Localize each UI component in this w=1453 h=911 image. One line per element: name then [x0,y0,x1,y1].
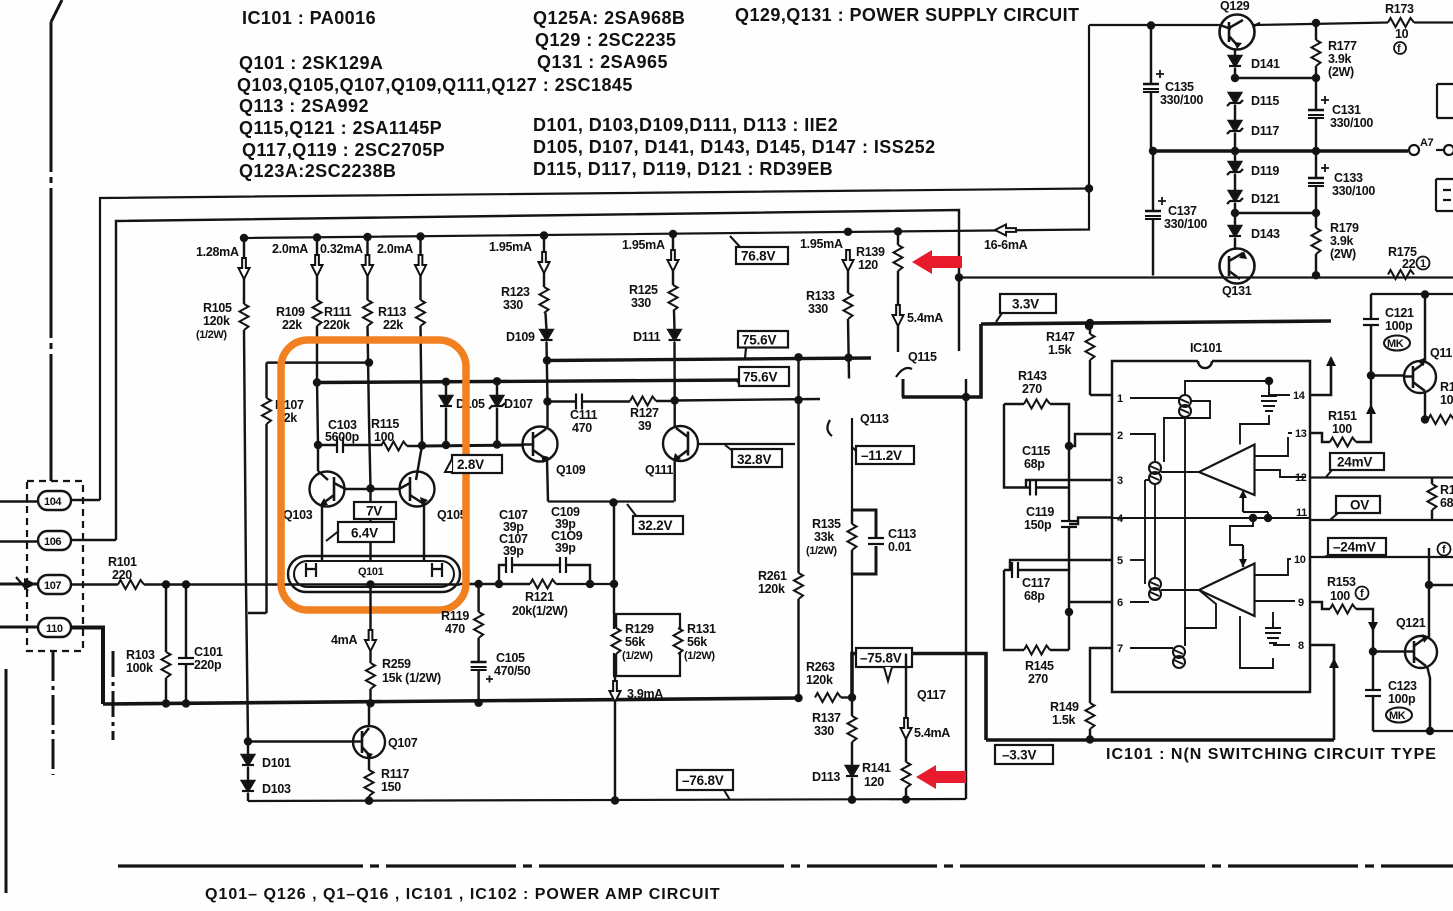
svg-text:100: 100 [1330,589,1350,603]
dual FET Q101 inner outline [294,561,454,587]
transistor Q119 [1404,295,1452,394]
red arrow at R139 [912,250,962,274]
callout -3.3V [995,745,1053,764]
svg-text:330/100: 330/100 [1164,217,1207,231]
resistor R107 22k [262,363,304,613]
pin 5 lead [1010,560,1112,570]
transistor Q131 [1220,249,1255,299]
75.6V bus (first) [547,358,871,361]
svg-text:R115: R115 [371,417,399,431]
capacitor C137 330/100 [1145,151,1207,276]
svg-text:220k: 220k [323,318,350,332]
svg-text:150p: 150p [1024,518,1052,532]
svg-text:Q101: Q101 [358,566,384,578]
Q109 emitter wire [547,459,548,502]
IC internal: mirror pair 3 [1149,578,1161,600]
svg-text:Q113: Q113 [860,412,889,426]
resistor R103 100k [126,585,171,705]
terminal A7 [1409,137,1453,155]
input line through Q101 [300,583,460,586]
svg-text:100: 100 [1332,422,1352,436]
C117/R145 network box [1004,570,1069,650]
svg-text:R145: R145 [1025,659,1054,673]
svg-text:Q107: Q107 [388,736,418,750]
svg-text:Q11: Q11 [1430,346,1452,360]
hollow current arrows overlay [239,225,1017,740]
chassis dash-dot line top-left [51,0,113,775]
pin numbers [1117,390,1307,655]
svg-text:Q111: Q111 [645,463,673,477]
pin 8 lead to -3.3V rail with arrow [1310,645,1339,740]
diode D141 [1229,49,1280,76]
svg-text:D109: D109 [506,330,535,344]
svg-text:6: 6 [1117,597,1123,609]
top supply rail 76.8V [244,25,1089,238]
svg-text:C133: C133 [1334,171,1363,185]
bottom bus wire (ground/feedback bus) [103,698,801,704]
capacitors C107/C109 bridge [499,505,590,584]
svg-text:470/50: 470/50 [494,664,531,678]
svg-text:0.32mA: 0.32mA [320,242,363,256]
svg-text:R153: R153 [1327,575,1356,589]
zener D121 [1227,191,1280,213]
svg-text:R117: R117 [381,767,409,781]
pin 12 output line [1310,476,1453,478]
svg-text:20k(1/2W): 20k(1/2W) [512,604,568,618]
callout 0V [1330,496,1380,520]
svg-text:39: 39 [638,419,652,433]
svg-text:10: 10 [1294,554,1306,566]
resistor R109 22k [276,238,322,383]
svg-text:110: 110 [46,623,63,635]
current arrow 2.0mA [272,242,323,276]
svg-text:R1: R1 [1440,380,1453,394]
Q119 collector wire from top [1371,293,1453,295]
svg-text:1.28mA: 1.28mA [196,245,239,259]
svg-text:2.0mA: 2.0mA [272,242,308,256]
svg-text:–11.2V: –11.2V [861,448,902,463]
svg-text:IC101: IC101 [1190,341,1222,355]
capacitor C117 68p [1012,562,1050,603]
svg-text:1: 1 [1420,258,1426,270]
svg-text:22k: 22k [383,318,403,332]
svg-text:100: 100 [374,430,394,444]
svg-text:270: 270 [1022,382,1042,396]
svg-text:5.4mA: 5.4mA [914,726,950,740]
svg-text:1.5k: 1.5k [1048,343,1071,357]
svg-text:Q103,Q105,Q107,Q109,Q111,Q127: Q103,Q105,Q107,Q109,Q111,Q127 : 2SC1845 [237,75,633,95]
svg-text:R113: R113 [378,305,406,319]
svg-text:R103: R103 [126,648,155,662]
IC internal: input mirror pair top [1179,395,1191,417]
IC internal: op-amp triangle 2 [1199,545,1255,616]
current arrow 5.4mA (second) [901,654,951,741]
resistor R173 10 [1385,2,1453,55]
red arrow at R141 [916,765,966,789]
svg-text:2.8V: 2.8V [457,457,484,472]
svg-text:(2W): (2W) [1330,247,1356,261]
svg-text:C119: C119 [1026,505,1054,519]
transistor Q111 [645,401,795,478]
svg-text:33k: 33k [814,530,834,544]
svg-text:MK: MK [1389,710,1406,722]
svg-text:330/100: 330/100 [1160,93,1203,107]
svg-text:R1: R1 [1440,483,1453,497]
callout 76.8V [730,236,788,264]
svg-text:220: 220 [112,568,132,582]
bottom negative rail -76.8V [248,799,966,801]
pin 3 lead [1026,480,1112,488]
svg-text:106: 106 [44,536,61,548]
junction dots input line [163,582,169,588]
resistor R141 120 [862,739,911,800]
svg-text:Q117,Q119 : 2SC2705P: Q117,Q119 : 2SC2705P [242,140,445,160]
svg-text:R109: R109 [276,305,305,319]
svg-text:68p: 68p [1024,457,1045,471]
Q101 inner gate bars [306,563,442,577]
callout 24mV [1326,453,1384,477]
pin 13 lead + resistor R151 100 [1310,409,1357,447]
svg-text:330: 330 [814,724,834,738]
IC internal: wiring [1112,381,1310,668]
svg-text:330: 330 [808,302,828,316]
svg-text:56k: 56k [625,635,645,649]
svg-text:220p: 220p [194,658,222,672]
svg-text:C101: C101 [194,645,223,659]
svg-text:10: 10 [1440,393,1453,407]
pin 10 output line [1310,556,1453,558]
svg-text:–3.3V: –3.3V [1002,748,1036,763]
svg-text:D103: D103 [262,782,291,796]
svg-text:Q113 : 2SA992: Q113 : 2SA992 [239,96,369,116]
wire 106-loop vertical continues down to Q115 region [958,278,960,352]
resistor R179 3.9k 2W [1312,213,1360,275]
transistor Q115 (erased, label + fragment) [896,350,937,377]
svg-text:120k: 120k [806,673,833,687]
C111/R127 wire (Q109-Q111 collector link) [548,400,577,402]
current arrow 0.32mA [320,242,373,276]
svg-text:D121: D121 [1251,192,1280,206]
svg-text:15k (1/2W): 15k (1/2W) [382,671,441,685]
capacitor C111 470 [570,394,630,436]
svg-text:120: 120 [858,258,878,272]
callout 75.6V (first) [738,331,788,358]
svg-text:R151: R151 [1328,409,1357,423]
6.4V callout [326,522,394,542]
svg-text:0.01: 0.01 [888,540,911,554]
Q119 base wire [1371,374,1405,376]
svg-text:C115: C115 [1022,444,1050,458]
callout 32.8V (at Q111 base) [725,445,782,467]
chassis dash-dot bottom horizontal [118,864,1453,867]
svg-text:Q129,Q131 : POWER SUPPLY CIRCU: Q129,Q131 : POWER SUPPLY CIRCUIT [735,5,1080,25]
thick wire bus corner up to -75.8V line [852,654,986,741]
emitter link line [548,500,674,502]
chassis solid line bottom-left [5,669,8,893]
-3.3V thick rail [986,738,1334,742]
svg-text:1: 1 [1117,393,1123,405]
resistor R119 470 [441,584,483,662]
junction 106 rail [956,275,962,281]
right edge connector box 2 [1436,179,1453,211]
svg-text:–75.8V: –75.8V [860,651,902,666]
svg-text:R139: R139 [856,245,885,259]
svg-text:MK: MK [1387,338,1404,350]
wire R101 to Q101 input line [144,583,300,586]
svg-text:Q101 : 2SK129A: Q101 : 2SK129A [239,53,383,73]
resistor R149 1.5k [1050,700,1095,740]
wire R107 top link [267,361,370,363]
svg-text:–24mV: –24mV [1333,540,1376,555]
svg-text:22k: 22k [282,318,302,332]
svg-text:Q125A: 2SA968B: Q125A: 2SA968B [533,8,685,28]
svg-text:150: 150 [381,780,401,794]
connector 106 [0,531,116,550]
diode D103 [242,767,291,801]
pin 2 lead [1069,434,1112,446]
svg-text:12: 12 [1295,472,1307,484]
svg-text:3: 3 [1117,475,1123,487]
svg-text:120k: 120k [758,582,785,596]
svg-text:68: 68 [1440,496,1453,510]
svg-text:330: 330 [631,296,651,310]
svg-text:R261: R261 [758,569,787,583]
svg-text:14: 14 [1293,390,1306,402]
svg-text:6.4V: 6.4V [351,526,378,541]
svg-text:22: 22 [1402,257,1416,271]
pin 11 output line (0V) [1310,519,1453,521]
Q101 center tap junction [368,582,374,588]
IC internal: mirror pair bottom [1173,646,1185,668]
svg-text:C113: C113 [888,527,916,541]
svg-text:D115, D117, D119, D121 : RD39E: D115, D117, D119, D121 : RD39EB [533,159,833,179]
svg-text:Q103: Q103 [283,508,313,522]
wire R107 bottom jog to diode chain [248,612,267,614]
svg-text:75.6V: 75.6V [743,370,777,385]
svg-text:Q123A:2SC2238B: Q123A:2SC2238B [239,161,396,181]
svg-text:D115: D115 [1251,94,1279,108]
svg-text:R141: R141 [862,761,891,775]
transistor Q105 [399,446,467,523]
svg-text:3.9k: 3.9k [1328,52,1351,66]
current arrow 4mA [331,585,376,652]
svg-text:C137: C137 [1168,204,1197,218]
IC internal: mirror pair 2 [1149,462,1161,484]
svg-text:R119: R119 [441,609,469,623]
resistor R123 330 [501,236,549,330]
IC internal cap top (pin14) [1261,392,1277,411]
svg-text:R179: R179 [1330,221,1359,235]
svg-text:Q129: Q129 [1220,0,1250,13]
callout 32.2V [627,504,683,534]
svg-text:100p: 100p [1385,319,1413,333]
PSU mid rail with A7 terminal [1153,149,1408,153]
current arrow 1.95mA (2nd) [622,238,679,271]
emitter wire Q103 to Q101 [321,504,323,560]
callout -75.8V [856,648,912,681]
svg-text:A7: A7 [1420,137,1434,149]
pin 1 lead [1090,394,1112,396]
dashed connector box [27,481,83,651]
Q121 emitter wire to bottom line [1427,666,1430,731]
Q121 collector wire [1428,548,1430,637]
connector 107 [38,575,71,594]
svg-text:1.5k: 1.5k [1052,713,1075,727]
rail junction dots [241,235,247,241]
svg-text:R125: R125 [629,283,658,297]
callout -76.8V [677,770,733,800]
svg-text:(1/2W): (1/2W) [684,650,715,662]
Q121 base wire [1373,650,1406,652]
svg-text:R133: R133 [806,289,835,303]
svg-text:R143: R143 [1018,369,1047,383]
svg-text:13: 13 [1295,428,1307,440]
svg-text:R111: R111 [324,305,352,319]
svg-text:D105: D105 [456,397,485,411]
IC internal: op-amp triangle 1 [1199,445,1255,513]
Q115 output bus (thick) [902,324,981,397]
svg-text:C123: C123 [1388,679,1417,693]
diode D113 [812,766,858,800]
16.6mA hollow arrow pointing left [984,225,1028,253]
svg-text:(1/2W): (1/2W) [196,329,227,341]
svg-text:D119: D119 [1251,164,1279,178]
7V callout [354,502,396,519]
svg-text:39p: 39p [503,544,524,558]
resistor R139 120 [856,232,903,306]
wire loop from terminal 106 (second frame wire) [116,210,959,540]
diode D105 [440,382,485,445]
svg-text:R177: R177 [1328,39,1357,53]
wire collector link continues right to Q113 area [675,399,820,401]
svg-text:D117: D117 [1251,124,1279,138]
wire down from Q115 bus to driver column [965,379,967,799]
svg-text:330/100: 330/100 [1330,116,1373,130]
resistor R145 270 [1024,646,1054,687]
resistor R259 15k (1/2W) [366,651,441,703]
75.6V bus (second bus, full width) [317,380,745,383]
resistor R147 1.5k [1046,323,1095,395]
svg-text:(1/2W): (1/2W) [622,650,653,662]
zener D115 [1227,93,1279,121]
svg-text:R105: R105 [203,301,232,315]
callout 2.8V (at R115 node) [445,455,502,473]
IC internal cap bottom (pin8) [1265,622,1281,643]
resistor R133 330 [806,271,853,379]
pin 4 lead [1069,518,1112,525]
svg-text:68p: 68p [1024,589,1045,603]
pin 7 lead [1090,648,1112,703]
capacitor C131 330/100 [1308,78,1373,151]
R135/C113 parallel box [852,510,876,574]
svg-text:100p: 100p [1388,692,1416,706]
svg-text:16-6mA: 16-6mA [984,238,1028,252]
svg-text:120k: 120k [203,314,230,328]
resistor R135 33k (1/2W) [806,510,857,574]
wire R151 to Q119 base [1356,376,1376,443]
svg-text:Q115: Q115 [908,350,937,364]
capacitor C105 470/50 electrolytic [471,651,531,703]
connector 110 [0,618,71,637]
emitter wire Q105 to Q101 [423,504,425,560]
Q119 emitter resistor (clipped at edge) [1422,380,1453,424]
svg-text:(1/2W): (1/2W) [806,545,837,557]
resistor R113 22k [378,238,425,445]
callout -11.2V [852,446,914,464]
base wire Q103-Q105 [346,488,400,490]
wire Q101 right side to R119/R121 [460,583,530,585]
svg-text:330: 330 [503,298,523,312]
PSU top rail [1089,24,1220,26]
svg-text:OV: OV [1350,498,1369,513]
svg-text:76.8V: 76.8V [741,249,775,264]
svg-text:R263: R263 [806,660,835,674]
diode D109 [506,330,553,401]
svg-text:2: 2 [1117,430,1123,442]
svg-text:75.6V: 75.6V [742,333,776,348]
Q111 emitter wire [673,459,675,502]
zener D117 [1227,121,1279,151]
svg-text:R173: R173 [1385,2,1414,16]
svg-text:C121: C121 [1385,306,1414,320]
svg-text:D107: D107 [504,397,533,411]
wire R135 bottom to bus [851,574,853,698]
svg-text:120: 120 [864,775,884,789]
resistor R175 22 in bottom rail [1388,245,1430,279]
pin 6 lead [1069,601,1112,603]
svg-text:100k: 100k [126,661,153,675]
transistor Q121 [1396,616,1437,668]
diode D143 [1229,213,1280,250]
svg-text:8: 8 [1298,640,1304,652]
transistor Q107 [351,703,418,760]
resistor R117 150 [365,758,410,801]
svg-text:R127: R127 [630,406,659,420]
wire D121 junction to C133/R179 junction [1235,212,1316,214]
svg-text:D105, D107, D141, D143, D145,: D105, D107, D141, D143, D145, D147 : ISS… [533,137,936,157]
svg-text:7: 7 [1117,643,1123,655]
Q103 collector wire [317,381,318,472]
current arrow 1.28mA [196,245,250,279]
svg-text:R121: R121 [525,590,554,604]
pin 14 lead to +3.3V arrow [1310,356,1336,395]
diode D101 [242,742,291,771]
resistor R115 100 [371,417,524,451]
svg-text:R101: R101 [108,555,137,569]
svg-text:104: 104 [44,496,62,508]
svg-text:D141: D141 [1251,57,1280,71]
svg-text:D101, D103,D109,D111, D113 : I: D101, D103,D109,D111, D113 : IIE2 [533,115,838,135]
svg-text:Q101– Q126 , Q1–Q16 , IC101 ,: Q101– Q126 , Q1–Q16 , IC101 , IC102 : PO… [205,886,721,903]
capacitor C103 5600p [318,418,381,453]
resistor R121 20k(1/2W) in feedback line [512,580,614,619]
resistor R131 56k (1/2W) [674,622,717,662]
resistor R111 220k [323,238,372,488]
svg-text:3.9k: 3.9k [1330,234,1353,248]
svg-text:56k: 56k [687,635,707,649]
svg-text:R259: R259 [382,657,411,671]
wire loop from terminal 104 (top frame wire) [100,189,1089,501]
svg-text:Q129 : 2SC2235: Q129 : 2SC2235 [535,30,676,50]
svg-text:5: 5 [1117,555,1123,567]
current arrow 2.0mA (second) [377,242,426,276]
capacitor C115 68p [1022,444,1050,496]
svg-text:Q121: Q121 [1396,616,1426,630]
svg-text:(2W): (2W) [1328,65,1354,79]
feedback divider box R129/R131 [614,614,680,676]
diode D107 [489,382,533,445]
zener D119 [1227,151,1279,191]
